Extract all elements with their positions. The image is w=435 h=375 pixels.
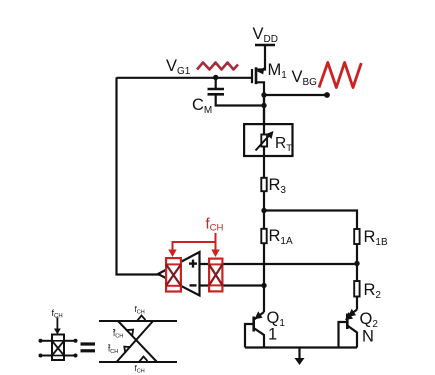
resistor R3 body: [261, 178, 266, 191]
wire: R3 to junction: [263, 192, 265, 229]
resistor R1A body: [261, 229, 266, 243]
node VBG terminal dot: [324, 92, 330, 98]
legend chopper arrow: [56, 318, 58, 330]
wire: R1B to R2: [356, 244, 358, 281]
ground: [298, 348, 300, 360]
capacitor CM plates: [208, 88, 225, 91]
wire: bottom rail: [245, 346, 357, 348]
resistor R1B body: [354, 229, 359, 244]
op-amp A1 triangle: [158, 252, 200, 296]
chopper CH1 (output, red box over amp): [166, 258, 181, 291]
op-amp minus sign: [190, 284, 197, 286]
transistor Q2 collector: [347, 326, 357, 348]
wire: VDD stem to M1 source: [256, 45, 265, 70]
fCH arrowhead right: [211, 250, 219, 258]
wire: Q1 base loop: [245, 324, 254, 348]
legend equals sign: [81, 342, 96, 345]
wire: R2 to Q2 emitter: [356, 297, 358, 310]
transistor Q1 emitter arrowhead: [255, 311, 263, 319]
legend chopper box: [52, 335, 64, 361]
wire: top branch to R1B: [264, 211, 357, 229]
transistor M1 gate bar: [251, 69, 253, 83]
wire: VBG tap: [264, 94, 327, 96]
junction R3 bottom: [261, 208, 266, 213]
fCH arrowhead left: [168, 250, 176, 258]
legend diagonal 1: [118, 321, 157, 362]
wire: R1A down to Q1 emitter: [263, 244, 265, 313]
legend switch network top rail: [99, 320, 177, 322]
junction VBG tap: [261, 92, 266, 97]
junction plus input tap: [354, 261, 359, 266]
capacitor CM bottom stub and return wire: [216, 95, 264, 106]
svg-text:N: N: [362, 328, 374, 346]
waveform: VG1 ripple (red zigzag): [197, 63, 238, 70]
junction CM return: [261, 103, 266, 108]
resistor R2 body: [354, 281, 359, 297]
wire: VDD bar: [255, 44, 275, 47]
legend diagonal 1 switch caret: [127, 330, 133, 336]
legend diagonal 2 switch caret: [124, 347, 130, 353]
transistor Q1 base bar: [252, 317, 255, 332]
legend chopper wires left: [41, 340, 53, 342]
junction minus input tap: [261, 283, 266, 288]
transistor M1 channel bar: [255, 67, 258, 84]
waveform: VBG triangle wave (red): [319, 63, 361, 88]
svg-text:1: 1: [268, 326, 277, 344]
legend switch network bottom rail: [99, 361, 177, 363]
transistor Q2 (PNP) emitter diagonal: [347, 310, 357, 318]
transistor M1 drain lead: [256, 82, 264, 123]
legend top switch caret: [137, 316, 146, 322]
junction CM tap: [213, 75, 218, 80]
wire: amp plus input: [200, 263, 358, 265]
transistor M1 (PMOS) source arrow: [257, 67, 264, 74]
resistor RT box: [244, 124, 292, 156]
legend bottom switch caret: [139, 357, 148, 363]
transistor Q1 (PNP) emitter diagonal: [254, 312, 264, 320]
chopper CH2 (input, red box): [209, 259, 222, 292]
wire: spine into RT: [263, 95, 265, 178]
resistor RT body: [261, 135, 267, 147]
wire: fCH control lines (red): [215, 233, 217, 252]
wire: Q2 base loop: [339, 322, 348, 348]
transistor Q1 collector: [254, 328, 264, 348]
op-amp plus sign: [189, 262, 197, 264]
wire: gate wire VG1: [117, 77, 253, 79]
transistor Q2 base bar: [346, 314, 349, 330]
resistor RT arrow: [256, 135, 271, 151]
legend chopper wires right: [64, 340, 76, 342]
capacitor CM top stub: [215, 78, 217, 89]
wire: amp minus input: [200, 284, 265, 286]
transistor Q2 double emitter arrowheads: [348, 309, 356, 317]
wire: amp output feedback: [117, 78, 161, 275]
legend diagonal 2: [117, 321, 154, 362]
